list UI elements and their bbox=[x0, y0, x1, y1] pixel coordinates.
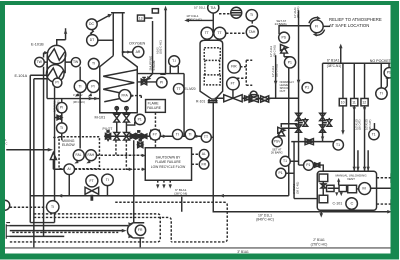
burner nozzle loops bbox=[115, 107, 118, 110]
node pair indicator arrows bbox=[74, 93, 92, 164]
svg-text:FIR: FIR bbox=[231, 65, 237, 69]
instrument FIC reactor outlet bbox=[228, 60, 241, 73]
wire reactor bottom drop bbox=[213, 102, 388, 212]
wire box13 connector bbox=[144, 17, 152, 19]
furnace coil bbox=[103, 70, 137, 102]
instrument TI right edge bbox=[376, 88, 387, 99]
wire reactor outlet y96.5 bbox=[215, 55, 299, 98]
mixing elbow dashed boundary bbox=[59, 137, 99, 169]
wire PSH stub bbox=[388, 63, 390, 67]
right border flag B bbox=[391, 200, 395, 209]
svg-text:DC: DC bbox=[89, 22, 94, 26]
wire hot outlet A x30 bbox=[30, 75, 46, 222]
instrument AI mixing bbox=[64, 164, 75, 175]
svg-text:TI: TI bbox=[92, 62, 95, 66]
valve reactor-outlet block bbox=[244, 96, 251, 101]
valve PSV1 angle bbox=[280, 44, 287, 53]
svg-text:TI: TI bbox=[60, 126, 63, 130]
mixing elbow strainer triangle bbox=[50, 152, 56, 159]
node branch flow arrow down bbox=[321, 137, 324, 141]
wire pump riser x133.5 bbox=[133, 140, 135, 223]
svg-text:P1: P1 bbox=[288, 60, 292, 64]
wire fuel gas line y98.3 bbox=[47, 98, 100, 100]
svg-text:P1: P1 bbox=[305, 86, 309, 90]
svg-text:12" A1A1: 12" A1A1 bbox=[271, 65, 275, 77]
svg-text:A1A2: A1A2 bbox=[155, 47, 159, 54]
instrument T1 x285 bbox=[280, 156, 290, 166]
wire T1 stub y161 bbox=[290, 160, 298, 162]
wire strainer drop bbox=[53, 160, 63, 170]
instrument TT reactor 2 bbox=[214, 27, 226, 39]
svg-text:ELBOW: ELBOW bbox=[62, 143, 75, 147]
svg-text:TT: TT bbox=[204, 135, 208, 139]
instrument TI burner row 2 bbox=[173, 129, 183, 139]
node box11-12 down arrowheads bbox=[353, 107, 367, 111]
svg-text:13: 13 bbox=[139, 16, 143, 20]
reactor bottom flange bbox=[208, 99, 218, 103]
instrument TI crossover bbox=[169, 56, 180, 67]
instrument FAH mixing bbox=[86, 150, 97, 161]
instrument FR x204 bbox=[199, 160, 209, 170]
svg-text:PSV: PSV bbox=[274, 140, 282, 144]
instrument TI burner row 3 bbox=[185, 129, 195, 139]
reactor R-101 internals bbox=[204, 48, 220, 85]
EQUIPMENT bbox=[46, 9, 395, 239]
instrument PSH right edge bbox=[384, 68, 394, 78]
svg-text:PI: PI bbox=[60, 106, 63, 110]
wire snuffing steam drop bbox=[149, 21, 153, 78]
svg-text:RELIEF TO ATMOSPHERE: RELIEF TO ATMOSPHERE bbox=[329, 17, 382, 22]
compressor C circle bbox=[346, 198, 358, 210]
svg-text:T1: T1 bbox=[336, 143, 340, 147]
svg-text:LOW RECYCLE FLOW: LOW RECYCLE FLOW bbox=[151, 165, 186, 169]
svg-text:E-101A: E-101A bbox=[15, 74, 28, 78]
svg-text:TAH: TAH bbox=[249, 30, 256, 34]
svg-text:(38 C-N1): (38 C-N1) bbox=[273, 45, 277, 57]
valve interstage hourglass bbox=[321, 184, 326, 188]
node header flow arrows bbox=[163, 135, 200, 138]
wire long vertical x54.3 bbox=[54, 87, 56, 222]
svg-text:TI: TI bbox=[176, 132, 179, 136]
svg-text:FAL: FAL bbox=[75, 153, 81, 157]
instrument FY burner row bbox=[151, 130, 160, 139]
svg-text:TI: TI bbox=[250, 13, 253, 17]
compressor C-101 package box bbox=[317, 171, 376, 210]
svg-text:AR: AR bbox=[136, 50, 141, 54]
wire pump inlet y230.4 bbox=[10, 230, 123, 232]
wire TW stubs bbox=[44, 61, 71, 63]
svg-text:1/2"A1S3: 1/2"A1S3 bbox=[365, 119, 369, 130]
svg-text:M: M bbox=[362, 186, 365, 191]
svg-text:1/2"A1S3: 1/2"A1S3 bbox=[354, 119, 358, 130]
svg-text:FLAME: FLAME bbox=[148, 101, 160, 105]
instrument TAH right stack bottom bbox=[246, 26, 258, 38]
wire main vertical x297.3 bbox=[298, 10, 300, 165]
svg-text:AT SAFE LOCATION: AT SAFE LOCATION bbox=[329, 23, 369, 28]
wire crossover y73.3 bbox=[137, 66, 184, 136]
svg-text:SHUTDOWN BY: SHUTDOWN BY bbox=[156, 156, 182, 160]
svg-text:PILOT: PILOT bbox=[103, 127, 113, 131]
valve suction a1 hourglass bbox=[296, 113, 302, 120]
wire exchanger right side bbox=[64, 55, 66, 74]
valve manifold bowtie 4 bbox=[136, 134, 141, 139]
wire bottom line y225.4 bbox=[10, 225, 129, 227]
svg-text:E-101B: E-101B bbox=[31, 43, 44, 47]
svg-text:(38 C-N11): (38 C-N11) bbox=[275, 64, 279, 77]
instrument DC bbox=[86, 19, 97, 30]
wire P1 burner stub bbox=[126, 122, 134, 125]
flame failure box bbox=[146, 100, 166, 113]
svg-text:FI: FI bbox=[315, 24, 318, 28]
wire second vertical x293.8 bbox=[293, 142, 295, 199]
wire feed riser x41 bbox=[43, 53, 45, 237]
node outlet flow arrows down bbox=[274, 80, 301, 86]
instrument TT reactor 1 bbox=[201, 27, 213, 39]
wire compressor blowdown bbox=[320, 210, 322, 214]
instrument TW right bbox=[71, 58, 80, 67]
instrument TI bottom left bbox=[47, 201, 59, 213]
node DC arrow head bbox=[108, 14, 113, 18]
instrument P1 x280 bbox=[276, 168, 286, 178]
wire PI riser x61.5 bbox=[61, 99, 63, 141]
node vent arrowhead bbox=[337, 178, 340, 182]
svg-text:TI: TI bbox=[51, 205, 54, 209]
node shutdown box output arrowheads bbox=[156, 184, 172, 188]
node fuel gas arrows bbox=[89, 97, 99, 100]
svg-text:10" D1L1: 10" D1L1 bbox=[194, 6, 206, 10]
instrument circle x57 bbox=[53, 78, 62, 87]
instrument PSV2 bbox=[272, 137, 282, 147]
svg-text:3" B1A1: 3" B1A1 bbox=[237, 250, 249, 254]
wire relief branch arrow x340.5 bbox=[340, 47, 342, 63]
svg-text:T1: T1 bbox=[372, 133, 376, 137]
relief FI arcs bbox=[309, 17, 325, 35]
svg-text:TW: TW bbox=[73, 60, 79, 64]
svg-text:10: 10 bbox=[341, 100, 345, 104]
wire feed top into E-101B bbox=[44, 52, 45, 54]
instrument AR oxygen bbox=[133, 46, 144, 57]
svg-text:TI: TI bbox=[106, 178, 109, 182]
wire discharge left y198.3 bbox=[294, 198, 317, 200]
svg-text:TT: TT bbox=[205, 31, 209, 35]
valve suction b2 hourglass bbox=[320, 125, 326, 132]
instrument TW left bbox=[35, 57, 45, 67]
valve manifold hourglass 1 bbox=[114, 132, 120, 140]
compressor cylinder 3 bbox=[348, 185, 357, 193]
tag box 12 bbox=[361, 98, 368, 105]
tag box 10 bbox=[339, 98, 346, 105]
svg-text:P1: P1 bbox=[138, 117, 142, 121]
compressor internal pipe bbox=[323, 182, 359, 196]
instrument TI pair left bbox=[74, 80, 86, 92]
valve recycle control bbox=[85, 187, 99, 201]
INSTRUMENTS bbox=[0, 2, 394, 213]
valve reactor-outlet second control bbox=[249, 91, 258, 102]
svg-text:11: 11 bbox=[352, 100, 356, 104]
wire DC arrow to stack bbox=[97, 16, 109, 22]
svg-text:FR: FR bbox=[202, 162, 207, 166]
instrument TI right stack top bbox=[246, 10, 257, 21]
valve manifold bowtie 5 bbox=[142, 134, 146, 138]
wire left TI drop line y222.3 bbox=[30, 222, 54, 224]
instrument T1 x373 bbox=[369, 129, 379, 139]
svg-text:T.I: T.I bbox=[172, 59, 176, 63]
valve reactor-outlet control FT bbox=[224, 90, 242, 102]
valve fuel-2 vertical hourglass bbox=[124, 114, 130, 122]
svg-text:(849°C-HC): (849°C-HC) bbox=[256, 218, 274, 222]
wire compressor inlet y164.8 bbox=[299, 165, 324, 174]
svg-text:PI: PI bbox=[55, 81, 58, 85]
node oxygen arrowheads bbox=[122, 50, 131, 53]
wire furnace outlet y81.7 bbox=[137, 81, 156, 83]
wire valve link y117.3 bbox=[55, 117, 58, 119]
node feed continuation arrow bbox=[184, 19, 189, 23]
wire DC-DT signal link bbox=[91, 30, 94, 35]
pump FR impeller circle bbox=[135, 225, 145, 235]
svg-text:12: 12 bbox=[362, 100, 366, 104]
svg-text:(16 CAT): (16 CAT) bbox=[358, 120, 362, 130]
instrument FAL mixing bbox=[73, 150, 84, 161]
instrument PSV1 bbox=[279, 32, 290, 43]
instrument PI x288 bbox=[284, 57, 295, 68]
wire interlock drop x181.5 bbox=[181, 197, 183, 212]
wire bottom line y236.1 bbox=[10, 235, 65, 237]
instrument FT reactor outlet bbox=[227, 77, 240, 90]
svg-text:(38 C-HC): (38 C-HC) bbox=[73, 100, 85, 104]
instrument T1 x337 bbox=[333, 140, 343, 150]
reactor R-101 shell bbox=[200, 40, 223, 99]
svg-text:(38 C-N1): (38 C-N1) bbox=[296, 182, 300, 194]
tag box 11 bbox=[351, 98, 358, 105]
svg-text:TI: TI bbox=[188, 132, 191, 136]
instrument hold cloud bbox=[231, 7, 242, 18]
svg-text:TT: TT bbox=[217, 31, 221, 35]
svg-text:(25 CAT): (25 CAT) bbox=[368, 120, 372, 130]
wire vertical x165.3 bbox=[160, 9, 165, 75]
wire exchanger B top riser bbox=[57, 28, 66, 45]
wire TW2 drop x79.5 bbox=[79, 67, 81, 149]
valve PSV2 angle bbox=[278, 124, 298, 136]
wire box11 drop bbox=[354, 63, 358, 171]
svg-text:OXYGEN: OXYGEN bbox=[129, 42, 146, 46]
wire box10 drop bbox=[342, 63, 344, 131]
wire oxygen lance bbox=[122, 51, 133, 53]
valve burner lower bbox=[138, 142, 143, 148]
svg-text:FAH: FAH bbox=[88, 153, 95, 157]
valve manifold hourglass 2 bbox=[124, 132, 130, 140]
wire T1 floater stub bbox=[373, 123, 375, 130]
wire vent riser bbox=[338, 180, 340, 185]
svg-text:FT: FT bbox=[231, 82, 235, 86]
wire suction header y141.4 bbox=[291, 141, 333, 143]
instrument PI x307 bbox=[302, 82, 312, 92]
valve compressor inlet bbox=[315, 163, 320, 167]
wire exchanger A bottom drop x46.8 bbox=[46, 64, 48, 99]
node box10 arrowhead bbox=[341, 130, 344, 135]
svg-text:TI: TI bbox=[78, 84, 81, 88]
svg-text:M-101: M-101 bbox=[95, 115, 106, 119]
wire exchanger left side bbox=[46, 55, 48, 74]
wire FT control loop y195.5 bbox=[30, 175, 289, 196]
svg-text:FAILURE: FAILURE bbox=[147, 106, 162, 110]
valve manifold 3way bbox=[105, 133, 110, 140]
top tag box bbox=[152, 9, 158, 13]
wire box12 drop bbox=[365, 63, 369, 171]
wire PSV2 branch bbox=[281, 127, 298, 129]
valve manifold bowtie 3 bbox=[130, 134, 135, 139]
svg-text:P1: P1 bbox=[306, 163, 310, 167]
svg-text:PS: PS bbox=[282, 36, 287, 40]
valve suction b1 hourglass bbox=[320, 113, 326, 120]
node blowdown arrowheads bbox=[319, 209, 323, 217]
instrument FI relief bbox=[310, 20, 323, 33]
valve drain a bbox=[303, 118, 308, 126]
node TI up arrowhead bbox=[386, 74, 389, 79]
heat-exchanger E-101B bbox=[47, 45, 65, 63]
furnace M-101 stack bbox=[111, 13, 125, 56]
svg-text:FFA: FFA bbox=[121, 94, 128, 98]
svg-text:26 BARG: 26 BARG bbox=[271, 151, 283, 155]
svg-text:(38 C-N1): (38 C-N1) bbox=[296, 6, 300, 18]
wire reactor feed riser x213 bbox=[188, 2, 213, 35]
instrument P1 burner bbox=[135, 114, 145, 124]
compressor inlet drum bbox=[319, 174, 328, 182]
instrument FFA furnace bbox=[119, 90, 131, 102]
wire burner gas header y136 bbox=[104, 135, 201, 137]
snuffing tag box 13 bbox=[137, 15, 144, 21]
svg-text:AI: AI bbox=[67, 167, 70, 171]
wire TI right stub bbox=[381, 63, 387, 89]
valve furnace outlet y81.7 bbox=[141, 77, 147, 84]
valve suction a2 hourglass bbox=[296, 125, 302, 132]
svg-text:PI: PI bbox=[91, 84, 94, 88]
motor M circle bbox=[359, 183, 371, 195]
wire motor lead right bbox=[371, 187, 392, 189]
svg-text:TI: TI bbox=[380, 92, 383, 96]
wire pump discharge bbox=[139, 238, 141, 248]
node FT loop arrowheads bbox=[58, 194, 224, 198]
node riser arrowhead up bbox=[64, 29, 67, 34]
instrument AL x204 bbox=[199, 149, 209, 159]
wire P1 stub y173 bbox=[286, 172, 294, 174]
svg-text:FLAME FAILURE: FLAME FAILURE bbox=[155, 160, 181, 164]
node compressor inlet arrowheads bbox=[353, 167, 370, 171]
instrument P1 compressor inlet bbox=[304, 160, 314, 170]
valve drain b bbox=[327, 118, 332, 126]
compressor cylinder 2 bbox=[339, 185, 347, 191]
svg-text:C: C bbox=[351, 201, 354, 206]
instrument PI pair right bbox=[87, 80, 99, 92]
pump FR casing bbox=[127, 223, 144, 238]
wire furnace fuel risers bbox=[117, 107, 127, 133]
node relief arc arrowheads bbox=[313, 16, 321, 37]
svg-text:PI: PI bbox=[160, 80, 163, 84]
svg-text:4" B1A2: 4" B1A2 bbox=[73, 93, 83, 97]
valve suction header bowtie bbox=[305, 139, 313, 145]
svg-text:DT: DT bbox=[90, 38, 95, 42]
instrument TI small x64 bbox=[57, 123, 67, 133]
node feed arrow bbox=[44, 51, 49, 54]
wire long vertical x33.5 bbox=[34, 79, 47, 248]
svg-text:FY: FY bbox=[153, 133, 158, 137]
compressor outlet drum bbox=[319, 195, 328, 203]
svg-text:AL: AL bbox=[202, 152, 206, 156]
svg-text:(278°C-HC): (278°C-HC) bbox=[311, 242, 328, 246]
node pump inlet arrowhead bbox=[122, 229, 127, 233]
wire PSV riser x283.8 bbox=[284, 53, 290, 57]
instrument PI furnace outlet bbox=[156, 77, 167, 88]
wire relief header y25.5 bbox=[279, 26, 310, 35]
wire suction branch x322.3 bbox=[322, 63, 324, 141]
instrument bubble left edge bbox=[0, 200, 10, 210]
valve reactor-outlet gate bbox=[261, 96, 269, 102]
wire drain stubs bbox=[299, 122, 327, 124]
svg-text:P1: P1 bbox=[279, 171, 283, 175]
valve exchanger bypass y117 bbox=[57, 115, 62, 120]
svg-text:TIA: TIA bbox=[210, 6, 216, 10]
svg-text:TW: TW bbox=[37, 60, 43, 64]
node mixing inlet arrowhead bbox=[48, 148, 53, 152]
svg-text:STEAM: STEAM bbox=[152, 60, 156, 71]
svg-text:R-101: R-101 bbox=[196, 100, 205, 104]
svg-text:6" B1A1: 6" B1A1 bbox=[327, 59, 339, 63]
instrument TT crossover bbox=[173, 84, 184, 95]
node D1L1 arrowhead bbox=[387, 210, 392, 214]
wire TT stub to drop bbox=[211, 136, 213, 138]
wire spool riser x288.5 bbox=[288, 98, 290, 196]
node shutdown box input arrowheads bbox=[129, 154, 146, 171]
node riser up arrowhead bbox=[164, 6, 167, 11]
instrument PI small x64 bbox=[57, 102, 67, 112]
compressor cylinder 1 bbox=[327, 185, 335, 191]
wire mixing inlet y150 bbox=[6, 149, 48, 151]
instrument TI recycle bbox=[102, 174, 114, 186]
svg-text:TT: TT bbox=[176, 87, 180, 91]
instrument FT recycle bbox=[86, 175, 98, 187]
svg-text:NO POCKET: NO POCKET bbox=[370, 59, 392, 63]
svg-text:(38°C-NI): (38°C-NI) bbox=[174, 191, 187, 195]
node snuffing arrowhead bbox=[147, 76, 151, 80]
svg-text:OUT: OUT bbox=[280, 89, 286, 93]
instrument TT x206 bbox=[201, 132, 211, 142]
svg-text:(185 C-HC): (185 C-HC) bbox=[159, 40, 163, 54]
instrument TIA reactor top bbox=[208, 2, 219, 13]
svg-text:(38°C-N1): (38°C-N1) bbox=[327, 64, 341, 68]
valve fuel-1 vertical hourglass bbox=[114, 114, 120, 122]
wire left bracket connector bbox=[6, 223, 10, 239]
svg-text:EL.M20: EL.M20 bbox=[185, 87, 196, 91]
node relief branch arrowhead bbox=[339, 44, 343, 49]
instrument TI x93 bbox=[88, 58, 99, 69]
instrument DT bbox=[87, 35, 98, 46]
svg-text:VENT: VENT bbox=[347, 177, 355, 181]
wire DT to furnace stack bbox=[98, 39, 113, 41]
svg-text:FT: FT bbox=[90, 179, 94, 183]
right border flag A bbox=[391, 174, 395, 182]
svg-text:24 BARG: 24 BARG bbox=[275, 22, 288, 26]
compressor vent arrows bbox=[335, 192, 343, 196]
svg-text:(600°C-HC): (600°C-HC) bbox=[186, 17, 202, 21]
furnace M-101 body bbox=[100, 56, 138, 113]
svg-text:FR: FR bbox=[138, 228, 143, 232]
shutdown interlock box bbox=[145, 148, 191, 181]
svg-text:(38 C-N1): (38 C-N1) bbox=[56, 100, 60, 112]
pump flow arrows bbox=[128, 222, 133, 238]
svg-text:T1: T1 bbox=[283, 159, 287, 163]
heat-exchanger E-101A bbox=[46, 65, 64, 83]
wire relief from FI bbox=[323, 25, 330, 27]
svg-text:12" A1A1: 12" A1A1 bbox=[293, 7, 297, 18]
